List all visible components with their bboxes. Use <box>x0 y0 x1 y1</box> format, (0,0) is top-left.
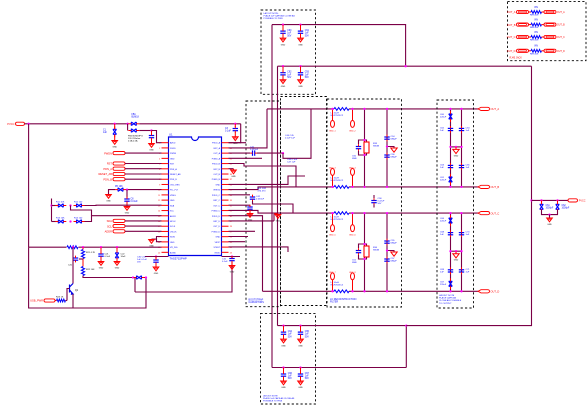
wire res right stub row1 <box>542 11 545 13</box>
svg-text:RES10K: RES10K <box>530 40 539 42</box>
junction left bus <box>27 123 29 125</box>
wire aux row7 <box>229 204 251 206</box>
port RST <box>113 162 125 165</box>
svg-text:ADDR: ADDR <box>105 230 112 234</box>
svg-text:MCLK: MCLK <box>170 221 176 223</box>
svg-text:VIN: VIN <box>534 46 538 48</box>
wire gnd stem A <box>233 169 235 170</box>
svg-text:R13 10K: R13 10K <box>56 218 65 220</box>
wire bank mid tie ch1 <box>451 146 462 148</box>
ground C48 <box>247 214 253 218</box>
svg-text:GND_4: GND_4 <box>349 167 357 169</box>
ground capacitor C93 top box <box>298 80 304 84</box>
svg-text:GVDD: GVDD <box>214 252 220 254</box>
wire C41 drop <box>283 109 311 158</box>
svg-text:GND: GND <box>154 273 159 275</box>
svg-text:VIN: VIN <box>534 19 538 21</box>
svg-text:PGND_D: PGND_D <box>212 231 221 233</box>
svg-text:GND: GND <box>112 147 117 149</box>
junction bank top x461.5 ch2 <box>460 212 462 214</box>
wire res right stub row4 <box>542 50 545 52</box>
junction gnd tie <box>548 213 550 215</box>
port ADDR <box>113 230 125 233</box>
svg-text:SCLK: SCLK <box>170 226 176 228</box>
svg-text:GND_8: GND_8 <box>349 272 357 274</box>
port RESET_AB <box>113 172 125 175</box>
resistor R23 <box>57 299 66 302</box>
junction VDD tap <box>530 199 532 201</box>
svg-text:R21 4.7K: R21 4.7K <box>86 252 96 254</box>
svg-text:GND: GND <box>170 158 175 160</box>
svg-text:GND: GND <box>454 155 459 157</box>
svg-text:RESET_AB: RESET_AB <box>170 173 181 176</box>
wire capacitor C96 bottom box to ground <box>283 378 285 381</box>
wire R21 to C20 <box>82 259 84 263</box>
svg-text:RST: RST <box>107 162 113 166</box>
wire C41 out <box>257 152 283 154</box>
wire AGND left riser <box>134 278 136 293</box>
dashed box: snubber region <box>281 97 327 306</box>
capacitor C55 out <box>384 241 389 243</box>
svg-text:OUT_A: OUT_A <box>557 11 565 14</box>
wire C22 gnd stem <box>116 259 118 262</box>
capacitor C2 <box>149 136 154 138</box>
capacitor C96 bottom box <box>281 374 286 376</box>
svg-text:RES10K: RES10K <box>530 53 539 55</box>
ferrite bead FB2 <box>131 129 136 133</box>
svg-text:PWDN: PWDN <box>170 153 177 155</box>
wire PVCC row2 top <box>278 65 532 67</box>
wire SDA to U1 <box>125 220 162 222</box>
svg-text:PGND_C: PGND_C <box>212 211 221 213</box>
svg-text:GND: GND <box>233 143 238 145</box>
svg-text:GND_7: GND_7 <box>329 272 337 274</box>
port OUT_A <box>478 107 490 110</box>
junction ferrite bead E8 <box>351 290 353 292</box>
capacitor C91 top box <box>298 31 303 33</box>
port SCL <box>113 225 125 228</box>
capacitor C90 top box <box>280 31 285 33</box>
wire PVCC row1 bottom <box>278 325 407 327</box>
wire cap stem capacitor C92 top box <box>282 66 284 71</box>
ground U1 digital <box>149 240 155 244</box>
wire pullup vertical <box>51 199 53 222</box>
wire PVCC right bus <box>406 66 531 325</box>
junction snubber top ch2 <box>363 243 365 245</box>
wire cap stem capacitor C94 bottom box <box>283 326 285 331</box>
inductor L4 <box>334 290 349 293</box>
svg-text:GND: GND <box>276 221 281 223</box>
dashed box: output connector resistors <box>508 2 587 61</box>
junction C32 tap <box>231 255 233 257</box>
capacitor C3 <box>233 129 238 131</box>
wire PWDN to U1 <box>125 152 162 154</box>
wire DVDD drop <box>229 124 241 143</box>
junction C30 tap <box>155 255 157 257</box>
junction rail x73 <box>72 246 74 248</box>
capacitor C20 <box>73 258 78 260</box>
port OUT_DM right <box>544 49 556 52</box>
svg-text:PGND_B: PGND_B <box>212 179 221 181</box>
capacitor C42 bootstrap <box>250 197 255 199</box>
port OUT_CM right <box>544 35 556 38</box>
wire row2 jog <box>85 216 162 222</box>
wire capacitor C97 bottom box to ground <box>300 378 302 381</box>
ground capacitor C97 bottom box <box>298 381 304 385</box>
resistor R20 zigzag <box>67 246 78 249</box>
wire VDD feed <box>532 199 569 201</box>
wire FB branch down <box>127 124 129 131</box>
wire res left stub row2 <box>529 24 532 26</box>
capacitor C48 <box>247 207 252 209</box>
wire PDN_A to U1 <box>125 168 162 170</box>
wire R22 stem <box>82 262 84 267</box>
svg-text:PVDD_A: PVDD_A <box>212 142 221 145</box>
junction bank bot x461.5 ch1 <box>460 186 462 188</box>
svg-text:GND: GND <box>216 237 221 239</box>
svg-text:SDIN: SDIN <box>170 237 175 239</box>
junction ferrite bead E4 <box>351 186 353 188</box>
inductor L2 <box>334 186 349 189</box>
svg-text:PVDD_B: PVDD_B <box>212 164 221 166</box>
svg-text:GND: GND <box>248 220 253 222</box>
resistor R34 snubber <box>364 246 369 257</box>
svg-text:GND: GND <box>99 268 104 270</box>
wire cap stem capacitor C95 bottom box <box>300 326 302 331</box>
capacitor C63 bankL <box>448 165 453 167</box>
svg-text:VBYP: VBYP <box>215 242 221 244</box>
ground U1 right A <box>231 170 237 174</box>
wire cap stem capacitor C93 top box <box>300 66 302 71</box>
port OUT_BM right <box>544 23 556 26</box>
junction cap bottom box r2c1 <box>282 366 284 368</box>
svg-text:GND: GND <box>298 86 303 88</box>
svg-text:GND: GND <box>125 213 130 215</box>
junction row1/row2 bus <box>404 65 406 67</box>
port inner mark row4 <box>519 50 527 52</box>
wire U1 bottom right tap <box>222 256 241 258</box>
wire row1 to U1 <box>85 204 162 206</box>
capacitor C58 mid <box>371 201 376 203</box>
port OUT_DP left <box>517 49 529 52</box>
ground arrow bank ch2 <box>453 254 459 258</box>
svg-text:PVDD_D: PVDD_D <box>212 216 221 218</box>
junction LC x387 y213.1 <box>386 212 388 214</box>
junction PLL node <box>126 188 128 190</box>
svg-text:SCL: SCL <box>107 224 113 228</box>
svg-text:PDN_A: PDN_A <box>170 168 177 171</box>
wire AVDD into pin1 <box>152 131 162 143</box>
capacitor C62 <box>556 204 560 209</box>
capacitor C61 <box>540 204 544 209</box>
wire capacitor C93 top box to ground <box>300 77 302 80</box>
port PWDN <box>113 152 125 155</box>
svg-text:GND: GND <box>106 201 111 203</box>
junction C3 tap <box>234 123 236 125</box>
ground capacitor C90 top box <box>280 38 286 42</box>
junction ferrite bead E2 <box>351 108 353 110</box>
wire SCL to U1 <box>125 225 162 227</box>
wire gnd drop B <box>273 214 275 221</box>
svg-text:ADDR: ADDR <box>170 215 176 218</box>
ferrite bead E8 <box>351 273 355 280</box>
wire C58 bottom <box>373 204 375 207</box>
dashed box: bottom layout-note box <box>261 313 316 404</box>
wire bottom-left bottom rail <box>29 247 146 308</box>
port OUT_C <box>478 212 490 215</box>
wire bank left vert ch2 <box>450 213 452 291</box>
svg-text:PLL_FLT: PLL_FLT <box>170 190 179 192</box>
ground C1 <box>112 141 118 145</box>
U1 right pins <box>212 142 233 255</box>
ferrite bead E4 <box>351 168 355 175</box>
junction C2 tap <box>150 129 152 131</box>
wire after FB2 <box>139 130 151 132</box>
junction cap bottom box r2c2 <box>299 366 301 368</box>
junction bank mid R ch2 <box>460 250 462 252</box>
wire GND pin stub B <box>229 220 275 222</box>
wire C32 gnd stem <box>231 262 233 265</box>
capacitor C68 bankL <box>448 233 453 235</box>
resistor R5 PLL <box>118 188 123 192</box>
wire snubber bracket2 ch1 <box>365 153 367 155</box>
junction ferrite bead E1 <box>331 108 333 110</box>
ground C30 <box>153 267 159 271</box>
svg-text:VREG2: VREG2 <box>213 190 221 192</box>
svg-text:GND: GND <box>230 272 235 274</box>
junction C61 top <box>540 199 542 201</box>
junction bank top x461.5 ch1 <box>460 108 462 110</box>
transistor Q1 <box>70 284 74 295</box>
svg-text:PDN_A: PDN_A <box>103 167 112 171</box>
wire C2 gnd stem <box>151 139 153 143</box>
wire C23 to right <box>145 277 147 279</box>
wire stub ferrite bead E1 <box>332 109 334 121</box>
wire C1 gnd stem <box>114 135 116 141</box>
junction FB split <box>126 123 128 125</box>
wire res right stub row2 <box>542 24 545 26</box>
wire LC right vertical ch1 <box>386 109 388 187</box>
wire C2 stem <box>151 131 153 135</box>
svg-text:PVDD_C: PVDD_C <box>212 195 221 197</box>
wire C42 drop <box>253 201 294 213</box>
port inner mark row2 <box>519 24 527 26</box>
wire row1 left seg <box>52 205 58 207</box>
svg-text:OUT_C: OUT_C <box>507 35 516 39</box>
svg-text:GND: GND <box>149 150 154 152</box>
dashed box: output cap bank <box>437 100 474 308</box>
junction rail x117 <box>116 246 118 248</box>
wire res left stub row4 <box>529 50 532 52</box>
junction bead node <box>132 276 134 278</box>
wire gnd bracket stem2 <box>151 238 153 240</box>
junction bank bot x450.5 ch2 <box>449 290 451 292</box>
port USB_PWR <box>44 299 55 302</box>
svg-text:OUT_D: OUT_D <box>491 290 500 294</box>
wire snubber cap tie2 ch2 <box>359 255 365 259</box>
wire USB port stub <box>55 300 57 302</box>
wire res left stub row1 <box>529 11 532 13</box>
wire C21 gnd stem <box>100 258 102 262</box>
dashed box: bootstrap capacitors <box>246 101 281 307</box>
capacitor C61 elec bot <box>449 177 453 182</box>
resistor R41 <box>531 23 542 26</box>
wire AVSS rail <box>29 246 162 248</box>
junction cap bottom box r1c1 <box>282 324 284 326</box>
wire C62 stem <box>557 200 559 203</box>
junction C62 top <box>556 199 558 201</box>
ground capacitor C91 top box <box>298 38 304 42</box>
resistor R12 <box>77 204 82 208</box>
wire GND pin stub A <box>229 168 234 170</box>
wire C8 gnd stem <box>126 203 128 207</box>
wire stub ferrite bead E8 <box>352 280 354 292</box>
wire Q1 emitter <box>72 294 74 301</box>
wire LC mid vertical ch2 <box>364 213 366 291</box>
capacitor C94 bottom box <box>281 332 286 334</box>
svg-text:GND: GND <box>170 242 175 244</box>
wire capacitor C91 top box to ground <box>300 35 302 38</box>
wire bank mid tie ch2 <box>451 250 462 252</box>
wire C61/C62 bottom tie <box>542 210 558 215</box>
svg-text:GND: GND <box>281 387 286 389</box>
junction C41 node <box>282 152 284 154</box>
ground capacitor C96 bottom box <box>281 381 287 385</box>
port OUT_AP left <box>517 10 529 13</box>
wire OUT_B row <box>229 187 479 190</box>
wire snubber bracket ch2 <box>365 244 367 246</box>
wire cap stem capacitor C97 bottom box <box>300 368 302 373</box>
wire bank gnd stem ch2 <box>455 251 457 254</box>
junction C1 tap <box>114 123 116 125</box>
svg-text:LRCLK: LRCLK <box>170 231 177 233</box>
svg-text:PVCC: PVCC <box>7 122 14 126</box>
svg-text:GND_5: GND_5 <box>329 235 337 237</box>
svg-text:R22 10K: R22 10K <box>86 269 95 271</box>
wire left bus column A <box>271 25 273 368</box>
wire stub ferrite bead E4 <box>352 175 354 187</box>
svg-text:BST_B: BST_B <box>214 169 221 171</box>
wire aux row3 <box>229 230 256 232</box>
ferrite bead E2 <box>351 120 355 127</box>
wire bank right vert ch2 <box>461 213 463 291</box>
wire U1 bottom left tap <box>145 256 169 258</box>
wire Q1 base <box>67 289 70 301</box>
svg-text:OUT_C: OUT_C <box>213 205 220 207</box>
ground arrow bank ch1 <box>453 149 459 153</box>
ground arrow LC ch2 <box>391 252 397 256</box>
wire OUT_A riser <box>229 109 268 148</box>
junction LC x387 y108.9 <box>386 108 388 110</box>
capacitor C23 <box>137 276 142 280</box>
svg-text:GND_3: GND_3 <box>329 167 337 169</box>
wire PVCC row1 top <box>272 25 406 67</box>
svg-text:R5 10K: R5 10K <box>115 186 123 188</box>
capacitor C54 out <box>384 137 389 139</box>
ferrite bead E7 <box>331 273 335 280</box>
capacitor C65 bankR <box>459 165 464 167</box>
capacitor C50 snubber <box>356 147 361 149</box>
wire Q1 emitter to bottom <box>72 301 74 309</box>
wire rows tie rect <box>71 206 92 216</box>
capacitor C67 elec bot <box>449 281 453 286</box>
ground C32 <box>229 266 235 270</box>
wire capacitor C95 bottom box to ground <box>300 336 302 339</box>
svg-text:GND_1: GND_1 <box>329 130 337 132</box>
wire aux row2 <box>229 164 297 187</box>
wire PDN_B to U1 <box>125 178 162 180</box>
capacitor C70 bankR <box>459 233 464 235</box>
port inner mark b row2 <box>546 24 554 26</box>
wire stub ferrite bead E5 <box>332 213 334 225</box>
wire snubber bracket ch1 <box>365 140 367 142</box>
resistor R22 <box>81 267 84 276</box>
svg-text:USB_PWR: USB_PWR <box>30 299 43 303</box>
wire OUT_C row <box>229 210 479 213</box>
U1 left pins <box>158 142 181 255</box>
port OUT_CP left <box>517 35 529 38</box>
port PDN_A <box>113 167 125 170</box>
wire C20 tie <box>79 258 83 260</box>
wire C22 stem <box>116 247 118 252</box>
svg-text:GND: GND <box>547 224 552 226</box>
ground capacitor C92 top box <box>280 80 286 84</box>
inductor L2 mask <box>334 184 349 189</box>
svg-text:PGND_A: PGND_A <box>212 157 221 160</box>
junction rail x101 <box>100 246 102 248</box>
svg-text:DVDD: DVDD <box>170 148 176 150</box>
ground VDD circuit <box>547 218 553 222</box>
junction out gnd ch1 <box>386 145 388 147</box>
svg-text:OUT_A: OUT_A <box>507 10 516 14</box>
wire AGND link <box>135 262 232 292</box>
wire LC mid vertical ch1 <box>364 109 366 187</box>
svg-text:OUT_A: OUT_A <box>213 152 220 155</box>
svg-text:R23 1K: R23 1K <box>56 297 64 299</box>
wire aux row1 <box>229 157 263 159</box>
ferrite bead E5 <box>331 225 335 232</box>
wire C21 stem <box>100 247 102 252</box>
wire C61 stem <box>541 200 543 203</box>
junction cap bottom box r1c2 <box>299 324 301 326</box>
wire OUT_A row <box>267 108 478 110</box>
wire after FB1 <box>139 123 240 125</box>
svg-text:GND: GND <box>115 268 120 270</box>
wire PLL pin run <box>127 189 162 191</box>
inductor L3 <box>334 212 349 215</box>
capacitor C8 PLL <box>124 199 129 201</box>
wire C1 stem <box>114 124 116 129</box>
wire res left stub row3 <box>529 36 532 38</box>
wire PGND run <box>229 247 289 252</box>
port OUT_B <box>478 185 490 188</box>
svg-text:R12 100: R12 100 <box>74 202 83 204</box>
junction out gnd ch2 <box>386 249 388 251</box>
capacitor C69 bankL <box>448 270 453 272</box>
capacitor C41 bootstrap <box>253 150 255 155</box>
resistor R21 <box>81 250 84 259</box>
capacitor C22 <box>115 253 119 258</box>
wire stub ferrite bead E3 <box>332 175 334 187</box>
port inner mark row3 <box>519 36 527 38</box>
wire stub ferrite bead E7 <box>332 280 334 292</box>
wire cap stem capacitor C90 top box <box>282 25 284 30</box>
junction LC x387 y291.3 <box>386 290 388 292</box>
resistor R40 <box>531 11 542 14</box>
wire Q1 collector riser <box>72 247 74 283</box>
junction cap top box r2c1 <box>282 65 284 67</box>
capacitor C21 <box>98 254 103 256</box>
